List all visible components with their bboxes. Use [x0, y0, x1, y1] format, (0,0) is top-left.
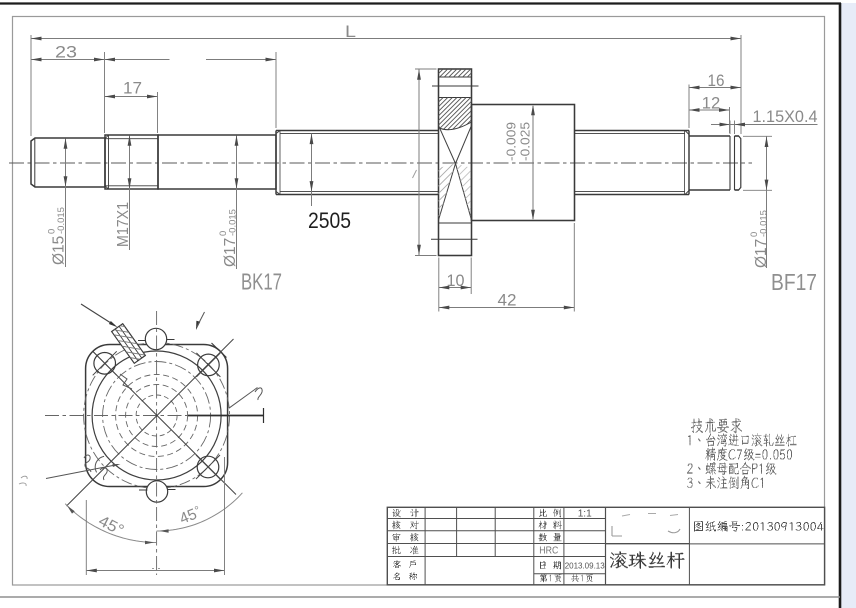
- small section arrow top: [196, 321, 200, 330]
- part name 滚珠丝杆: [610, 551, 685, 569]
- svg-text:-0.015: -0.015: [56, 207, 67, 234]
- label Dia17 tolerance right: [749, 210, 770, 268]
- extension line at x157.5: [157, 92, 159, 133]
- end view vertical centerline: [156, 311, 158, 575]
- section label squiggle: [255, 388, 262, 400]
- nut flange outline: [439, 69, 472, 256]
- keyway slot: [98, 304, 154, 374]
- bottom gray rule: [0, 596, 840, 598]
- svg-text:2505: 2505: [308, 208, 351, 233]
- title block vertical lines: [424, 507, 426, 585]
- label Dia17 tolerance middle: [218, 209, 239, 267]
- dimension Dia15 leader: [65, 139, 67, 268]
- flange hatch beside cross left: [382, 164, 566, 221]
- dimension 17: [105, 96, 158, 98]
- ballscrew threaded section right of nut: [575, 130, 690, 132]
- dashed circle r20.5: [136, 395, 177, 436]
- 45deg arc dimension left: [65, 504, 156, 543]
- slot leader arrow: [81, 304, 114, 325]
- erased logo remains: [612, 526, 622, 536]
- far left faint marks: [19, 476, 27, 486]
- flange OD dimension: [418, 69, 420, 256]
- dimension 23: [31, 59, 105, 61]
- right black border line: [839, 3, 842, 608]
- svg-text:M17X1: M17X1: [115, 202, 132, 247]
- date label: [540, 562, 546, 570]
- svg-text:2013.09.13: 2013.09.13: [565, 561, 605, 570]
- grease hole bottom: [146, 481, 167, 502]
- flange hatch upper section: [404, 98, 540, 133]
- bolt hole top-right: [198, 354, 220, 376]
- svg-text:HRC: HRC: [539, 545, 558, 557]
- svg-text:1.15X0.4: 1.15X0.4: [753, 108, 818, 126]
- circlip groove: [729, 136, 731, 190]
- dimension 16: [688, 85, 690, 129]
- svg-text:1:1: 1:1: [578, 508, 592, 520]
- erased leader into bottom-left hole: [46, 465, 118, 479]
- tech req line 4: [687, 476, 763, 489]
- drawing number: [694, 521, 824, 532]
- bolt circle dash-dot r73: [84, 343, 230, 489]
- section line tick: [263, 408, 265, 423]
- nut diameter tolerance -0.009 -0.025: [505, 122, 519, 161]
- 45deg arc dimension right: [157, 493, 243, 531]
- svg-text:12: 12: [702, 95, 721, 113]
- extension line at x104.5: [104, 52, 106, 133]
- end view section line solid: [188, 415, 264, 417]
- extension line left end: [30, 35, 32, 136]
- label M17X1: [115, 202, 132, 247]
- extension line right end: [740, 35, 742, 134]
- zigzag break mark: [120, 374, 132, 389]
- title block horizontal lines: [387, 518, 605, 520]
- dimension Dia17 middle leader: [236, 136, 238, 270]
- main diagonal NW-SE: [93, 352, 236, 495]
- flange hatch top tab: [431, 69, 485, 77]
- tech req line 3: [687, 462, 777, 475]
- dimension 12: [729, 107, 731, 133]
- svg-text:23: 23: [55, 44, 77, 62]
- groove callout 1.15X0.4: [711, 124, 818, 126]
- svg-text:BF17: BF17: [771, 269, 817, 295]
- end view pilot circle: [92, 351, 221, 480]
- dimension 42 nut length: [438, 294, 440, 312]
- shaft segment 2 M17X1 thread: [105, 135, 158, 189]
- technical requirements title: [691, 418, 742, 433]
- end view horizontal centerline: [45, 415, 188, 417]
- bolt hole bottom-right: [197, 456, 219, 478]
- bolt hole bottom-left erased remains: [95, 456, 104, 472]
- dimension Dia17 right end: [743, 135, 772, 137]
- svg-text:-0.015: -0.015: [759, 210, 770, 237]
- shaft end tip: [735, 135, 739, 137]
- section leader diagonal: [229, 388, 258, 409]
- ballscrew threaded section left of nut: [276, 130, 439, 132]
- shaft centerline: [9, 162, 752, 164]
- svg-text:BK17: BK17: [241, 269, 282, 295]
- svg-text:16: 16: [708, 72, 725, 90]
- label Dia15 tolerance: [47, 207, 68, 265]
- right end journal Dia17: [689, 135, 730, 137]
- svg-text:-0.015: -0.015: [228, 209, 239, 236]
- main diagonal NE-SW: [67, 339, 234, 506]
- dashed circle r31: [126, 385, 188, 447]
- page labels: [540, 574, 562, 583]
- nut body diameter dimension: [532, 106, 534, 219]
- svg-text:-0.009: -0.009: [505, 122, 519, 161]
- top black border line: [0, 2, 841, 4]
- svg-text:Ø15: Ø15: [51, 236, 68, 265]
- dimension M17X1 leader: [129, 136, 131, 251]
- NE corner chamfer: [212, 343, 227, 358]
- dimension L overall: [31, 38, 741, 40]
- dimension screw diameter leader: [311, 134, 313, 206]
- client name label: [393, 561, 401, 569]
- flange ball return curve: [439, 122, 472, 130]
- flange internal lines: [439, 76, 472, 78]
- end view outer flange contour: [86, 345, 228, 487]
- bottom width dimension (blank): [85, 500, 87, 575]
- svg-text:Ø17: Ø17: [753, 239, 770, 268]
- scale material qty labels: [539, 509, 547, 517]
- extension line at x276: [275, 52, 277, 128]
- svg-text:-0.025: -0.025: [519, 122, 533, 161]
- title block outline: [387, 507, 824, 585]
- tech req line 1: [688, 433, 797, 446]
- svg-text:10: 10: [447, 272, 465, 290]
- dashed circle r54: [103, 362, 211, 470]
- right blue margin strip: [841, 3, 856, 608]
- bolt hole top-left: [94, 353, 116, 375]
- dimension chain to thread start (blank value): [105, 59, 170, 61]
- svg-text:L: L: [345, 22, 356, 41]
- svg-text:42: 42: [498, 292, 517, 310]
- dimension 10 flange width: [438, 258, 440, 295]
- nut body outline: [472, 105, 575, 221]
- shaft segment 3 Dia17 plain: [158, 135, 276, 189]
- dashed circle r41: [116, 375, 198, 457]
- svg-text:Ø17: Ø17: [222, 238, 239, 267]
- title block row labels: [393, 509, 401, 517]
- flange hatch beside cross right: [399, 164, 583, 221]
- screw track cross in flange: [439, 126, 456, 164]
- grease hole top: [145, 328, 166, 349]
- tech req line 2: [706, 448, 793, 461]
- stray tick: [413, 170, 417, 178]
- svg-text:17: 17: [123, 80, 142, 98]
- shaft segment 1 Dia15 journal: [31, 138, 105, 187]
